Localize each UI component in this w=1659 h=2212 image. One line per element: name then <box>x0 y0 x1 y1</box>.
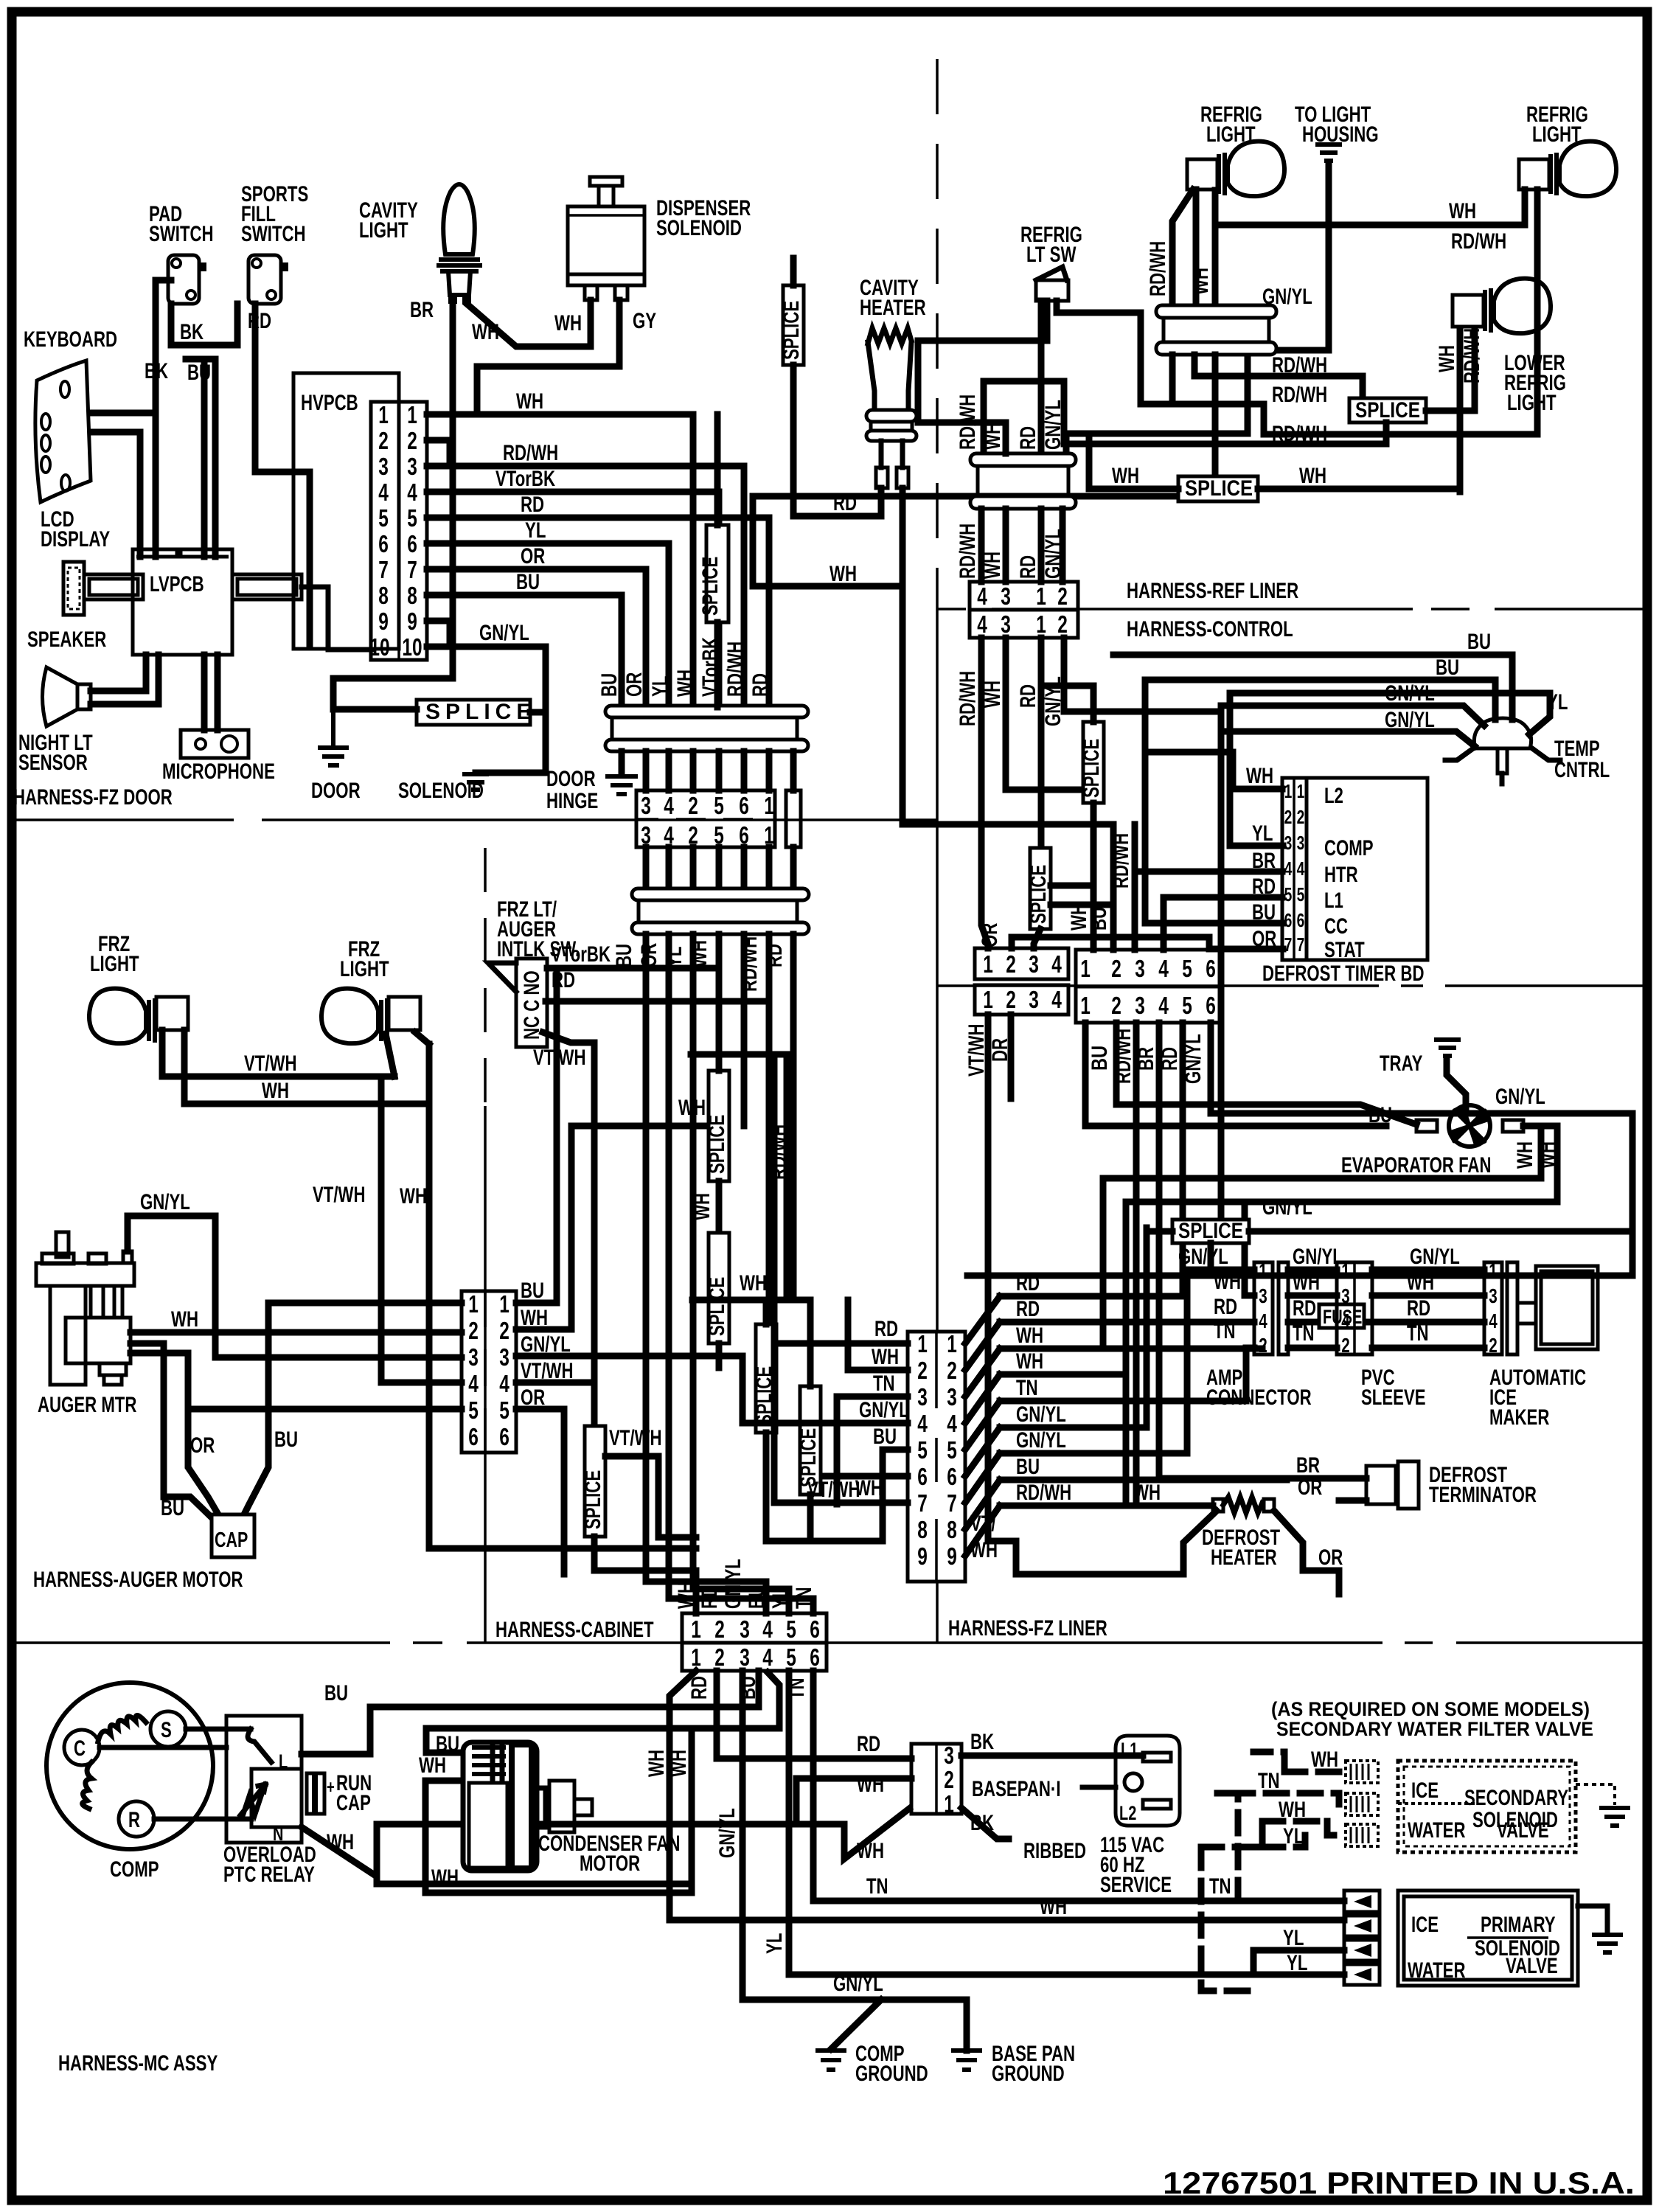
svg-text:5: 5 <box>468 1397 479 1424</box>
svg-text:BU: BU <box>324 1681 348 1705</box>
lcd display <box>63 562 84 615</box>
section divider H2 harness-ref-liner <box>937 608 1647 611</box>
wire splice10 right <box>1249 1228 1632 1235</box>
svg-text:WH: WH <box>521 1306 548 1330</box>
svg-text:GN/YL: GN/YL <box>1016 1402 1066 1427</box>
wire splice right GN/YL down <box>476 647 546 773</box>
dashed WH wire <box>1284 1769 1339 1775</box>
svg-text:6: 6 <box>1206 955 1216 982</box>
wire relay WH out <box>302 1809 909 1884</box>
svg-text:BU: BU <box>873 1425 897 1449</box>
svg-text:YL: YL <box>1252 821 1273 846</box>
svg-text:SWITCH: SWITCH <box>149 222 214 246</box>
wire splice WH top <box>714 414 721 525</box>
svg-text:C: C <box>74 1736 86 1761</box>
svg-text:3: 3 <box>1029 950 1039 978</box>
svg-text:2: 2 <box>378 427 389 454</box>
tray ground <box>1436 1040 1458 1056</box>
switch flag <box>488 963 516 992</box>
svg-text:BR: BR <box>410 298 434 322</box>
svg-text:1: 1 <box>378 401 389 428</box>
svg-text:4: 4 <box>917 1410 928 1437</box>
splice box S6 <box>1349 398 1426 422</box>
secondary valve dotted box <box>1398 1761 1576 1852</box>
wire sports switch to lvpcb <box>201 359 208 557</box>
dotted mid divider <box>1398 1802 1475 1805</box>
svg-text:GN/YL: GN/YL <box>715 1808 740 1858</box>
svg-text:1: 1 <box>1080 992 1091 1019</box>
wire lower refrig WH down <box>1457 330 1464 492</box>
svg-text:SPLICE: SPLICE <box>425 700 536 724</box>
wire RD/WH cn4312 pin4 down <box>981 638 988 948</box>
svg-text:WH: WH <box>1407 1270 1434 1295</box>
svg-text:TRAY: TRAY <box>1380 1051 1422 1076</box>
svg-text:L: L <box>279 1750 288 1773</box>
wire RD from switch <box>546 998 769 1005</box>
wire VT/WH into splice5 <box>516 1380 594 1386</box>
svg-text:WH: WH <box>981 422 1005 450</box>
svg-text:1: 1 <box>468 1290 479 1318</box>
splice3 WH box S7 <box>1178 476 1258 501</box>
svg-text:YL: YL <box>525 518 546 543</box>
svg-text:WH: WH <box>1016 1349 1043 1374</box>
wire splice S4b stubs <box>763 1300 770 1541</box>
svg-text:1: 1 <box>1036 611 1046 638</box>
svg-text:RD: RD <box>857 1732 880 1756</box>
svg-text:3: 3 <box>917 1383 928 1411</box>
wire TN pin6 down <box>813 1671 1344 1901</box>
svg-text:RD: RD <box>1016 684 1040 708</box>
svg-text:RD/WH: RD/WH <box>1460 328 1484 383</box>
svg-text:1: 1 <box>1080 955 1091 982</box>
wire pad switch left BK <box>156 280 171 557</box>
wire GN/YL pin3 down <box>742 1671 967 2051</box>
primary valve ground <box>1578 1906 1607 1932</box>
svg-text:SPLICE: SPLICE <box>705 1115 729 1174</box>
svg-text:2: 2 <box>1297 806 1305 828</box>
svg-text:+: + <box>327 1777 335 1798</box>
wire splice9 stubs <box>1051 886 1113 905</box>
svg-text:4: 4 <box>1158 955 1169 982</box>
svg-text:HARNESS-FZ DOOR: HARNESS-FZ DOOR <box>13 785 173 810</box>
door hinge grommet upper <box>605 706 808 717</box>
splice vertical S4c <box>800 1386 821 1495</box>
svg-text:5: 5 <box>1182 992 1192 1019</box>
wire WH vert to CN9 pin2 <box>848 1300 908 1370</box>
wire DR from CN4 pin2 <box>1008 1015 1015 1099</box>
svg-text:BU: BU <box>187 361 211 385</box>
svg-text:WH: WH <box>1535 1141 1559 1169</box>
frz light bulb B5 <box>89 989 188 1044</box>
svg-text:5: 5 <box>947 1436 957 1464</box>
svg-text:RD: RD <box>1016 1297 1040 1321</box>
svg-text:WATER: WATER <box>1408 1818 1466 1843</box>
svg-text:3: 3 <box>947 1383 957 1411</box>
wire R8 BU <box>1000 1477 1287 1484</box>
svg-text:WH: WH <box>1040 1895 1067 1919</box>
svg-text:BU: BU <box>516 570 540 594</box>
wire splice S4c stubs <box>807 1300 814 1541</box>
svg-text:RD/WH: RD/WH <box>767 1124 791 1180</box>
wire splice5 bottom <box>594 1537 696 1613</box>
svg-text:WH: WH <box>1311 1747 1338 1772</box>
svg-text:RD/WH: RD/WH <box>956 524 980 579</box>
svg-text:RD: RD <box>1407 1296 1430 1321</box>
wire BU long from auger bus <box>516 824 1113 1303</box>
wire C across <box>100 1745 226 1750</box>
svg-text:GN/YL: GN/YL <box>1041 400 1065 450</box>
svg-text:BK: BK <box>180 320 204 344</box>
hvpcb pin connector <box>371 402 427 660</box>
lvpcb box U1 <box>133 549 232 655</box>
svg-text:L1: L1 <box>1324 888 1343 913</box>
plug 115vac P1 <box>1116 1736 1180 1826</box>
wire GN/YL left pin4 <box>516 1356 908 1423</box>
svg-text:3: 3 <box>1001 611 1011 638</box>
hvpcb pin numbers <box>369 401 422 661</box>
svg-text:WH: WH <box>981 552 1005 579</box>
svg-text:SPLICE: SPLICE <box>1185 476 1253 501</box>
svg-text:1: 1 <box>407 401 417 428</box>
svg-text:CAP: CAP <box>336 1791 371 1815</box>
wire heater WH pin down <box>753 488 902 586</box>
secondary valve terminals dotted <box>1346 1761 1378 1846</box>
wire VT-WH col8 down <box>790 934 797 1300</box>
wire rd/wh line3 <box>1064 422 1386 444</box>
svg-text:TN: TN <box>1016 1376 1038 1400</box>
svg-text:SPLICE: SPLICE <box>1026 865 1051 924</box>
defrost timer bd box U3 <box>1282 778 1427 960</box>
svg-text:7: 7 <box>378 556 389 583</box>
svg-text:WH: WH <box>1435 345 1459 372</box>
wire splice RD top <box>790 258 797 516</box>
svg-text:6: 6 <box>917 1463 928 1490</box>
svg-text:4: 4 <box>1158 992 1169 1019</box>
svg-text:LIGHT: LIGHT <box>359 218 408 243</box>
temp cntrl BU wire 1 <box>1113 655 1512 720</box>
svg-text:S: S <box>161 1718 172 1742</box>
svg-text:3: 3 <box>641 792 651 819</box>
svg-text:7: 7 <box>917 1489 928 1517</box>
svg-text:WH: WH <box>171 1307 198 1332</box>
svg-text:PTC RELAY: PTC RELAY <box>223 1863 315 1887</box>
keyboard <box>35 361 91 502</box>
svg-text:WH: WH <box>1133 1481 1161 1505</box>
svg-text:SPLICE: SPLICE <box>581 1470 605 1529</box>
wire heater RD pin <box>793 488 881 516</box>
svg-text:4: 4 <box>378 479 389 506</box>
svg-text:3: 3 <box>1284 832 1293 854</box>
svg-text:GROUND: GROUND <box>992 2062 1065 2086</box>
splice GN/YL S10 <box>1172 1220 1249 1243</box>
door connector numbers row2 <box>641 821 774 849</box>
svg-text:GROUND: GROUND <box>855 2062 928 2086</box>
wire R7 GN/YL <box>1000 1270 1211 1453</box>
svg-text:OR: OR <box>622 672 647 697</box>
svg-text:3: 3 <box>1135 992 1145 1019</box>
CN9 right diagonals <box>965 1296 1000 1556</box>
connector CN6 <box>1076 950 1220 987</box>
svg-text:WH: WH <box>872 1345 899 1369</box>
svg-text:SWITCH: SWITCH <box>241 222 306 246</box>
svg-text:SENSOR: SENSOR <box>18 751 88 775</box>
wire keyboard to lvpcb bus <box>91 413 156 557</box>
wire RD pin2 down <box>717 1671 911 1759</box>
svg-text:3: 3 <box>740 1644 750 1671</box>
splice vertical S5 left <box>585 1426 605 1537</box>
svg-text:DOOR: DOOR <box>546 767 596 791</box>
comp ground diag <box>831 2000 881 2049</box>
svg-text:BU: BU <box>1467 630 1491 654</box>
lvpcb left connector <box>84 574 143 599</box>
section divider vertical V2 <box>484 848 487 1106</box>
relay resistor arrow <box>240 1784 265 1815</box>
svg-text:BR: BR <box>1296 1453 1320 1478</box>
svg-text:HEATER: HEATER <box>1211 1545 1277 1570</box>
svg-text:CAP: CAP <box>215 1528 248 1552</box>
svg-text:OR: OR <box>521 544 546 568</box>
wire hvpcb pin5 RD <box>427 518 769 707</box>
svg-text:SPLICE: SPLICE <box>779 301 804 360</box>
svg-text:1: 1 <box>1489 1259 1498 1282</box>
timer pin5 RD wire <box>1164 897 1282 950</box>
door connector numbers row1 <box>641 792 774 819</box>
svg-text:4: 4 <box>1341 1310 1350 1332</box>
svg-text:1: 1 <box>947 1330 957 1357</box>
svg-text:1: 1 <box>764 792 774 819</box>
svg-text:6: 6 <box>499 1423 509 1450</box>
wire VT/WH from CN4 pin1 to heater <box>988 1015 1217 1574</box>
wire lt sw right pin zig <box>1057 301 1141 404</box>
svg-text:5: 5 <box>407 504 417 532</box>
svg-text:VT/WH: VT/WH <box>521 1359 574 1383</box>
svg-text:CNTRL: CNTRL <box>1554 758 1610 782</box>
svg-text:RIBBED: RIBBED <box>1023 1839 1086 1863</box>
svg-text:OR: OR <box>1318 1545 1343 1570</box>
wire WH top of splice3 <box>691 1054 787 1300</box>
svg-text:LIGHT: LIGHT <box>1507 391 1557 415</box>
bus rotated labels above door hinge grommet <box>597 637 773 697</box>
svg-text:YL: YL <box>1287 1951 1307 1975</box>
wire splice left to door ground <box>333 706 417 713</box>
comp ground symbol <box>818 2051 844 2070</box>
comp coil CS <box>98 1715 146 1742</box>
wire bulb1 mid pin <box>1193 189 1200 307</box>
svg-text:RD: RD <box>521 493 544 517</box>
svg-text:WH: WH <box>1189 268 1213 295</box>
svg-text:6: 6 <box>810 1615 820 1643</box>
svg-text:GN/YL: GN/YL <box>140 1190 190 1214</box>
svg-text:TN: TN <box>1214 1319 1236 1343</box>
wires below grommet A <box>1172 355 1363 476</box>
NC C NO switch <box>516 959 547 1047</box>
svg-text:HEATER: HEATER <box>860 296 926 320</box>
svg-text:SOLENOID: SOLENOID <box>656 216 742 240</box>
svg-text:WH: WH <box>829 562 857 586</box>
wire sports switch right RD down <box>255 304 310 645</box>
svg-text:1: 1 <box>1036 582 1046 610</box>
wire RD cn4312 pin1 down <box>1038 638 1045 848</box>
pvc connector CN-A2 <box>1337 1262 1372 1354</box>
svg-text:GN/YL: GN/YL <box>479 621 529 645</box>
wire WH from auger rows to splice1 <box>516 1126 709 1329</box>
primary valve box <box>1398 1891 1578 1986</box>
svg-text:1: 1 <box>499 1290 509 1318</box>
wire BU auger to cap <box>131 1343 215 1520</box>
svg-text:YL: YL <box>768 1588 793 1609</box>
svg-text:GN/YL: GN/YL <box>859 1398 909 1422</box>
svg-text:TN: TN <box>1258 1769 1280 1793</box>
svg-text:WH: WH <box>419 1753 446 1778</box>
wire hvpcb pin6 YL <box>427 543 669 707</box>
wire heater right OR <box>1274 1511 1339 1594</box>
svg-text:9: 9 <box>378 608 389 635</box>
svg-text:RD: RD <box>874 1317 898 1341</box>
svg-text:BU: BU <box>274 1427 298 1452</box>
svg-text:MICROPHONE: MICROPHONE <box>162 759 275 784</box>
svg-text:3: 3 <box>499 1343 509 1371</box>
svg-text:VALVE: VALVE <box>1506 1954 1558 1978</box>
svg-text:GN/YL: GN/YL <box>521 1332 571 1357</box>
wire RD/WH zig to bulb2 <box>1141 189 1537 434</box>
dashed loop <box>1201 1752 1284 1991</box>
svg-text:2: 2 <box>1259 1334 1267 1357</box>
hvpcb box U2 <box>293 373 399 649</box>
svg-text:RD/WH: RD/WH <box>723 641 748 697</box>
svg-text:WH: WH <box>1293 1270 1320 1295</box>
wire cavity light BR <box>333 304 453 709</box>
wire splice8 top <box>1041 686 1093 722</box>
svg-text:LIGHT: LIGHT <box>90 952 139 976</box>
wire BU right to cap <box>243 1303 462 1516</box>
svg-text:WH: WH <box>262 1079 289 1103</box>
wire splice9 bottom to CN4 pin3 <box>1034 929 1040 948</box>
svg-text:7: 7 <box>407 556 417 583</box>
svg-text:STAT: STAT <box>1324 938 1365 962</box>
svg-text:1: 1 <box>1259 1259 1267 1282</box>
svg-text:9: 9 <box>407 608 417 635</box>
wire OR auger to cap <box>131 1353 218 1514</box>
dashed WH wire2 <box>1262 1821 1339 1835</box>
svg-text:AUGER MTR: AUGER MTR <box>38 1393 137 1417</box>
wire YL from temp <box>1230 693 1550 846</box>
connector CN9 <box>908 1332 965 1582</box>
svg-text:6: 6 <box>1284 909 1293 931</box>
svg-text:4: 4 <box>977 611 987 638</box>
svg-text:HARNESS-CABINET: HARNESS-CABINET <box>495 1618 654 1642</box>
wire below switch <box>543 1032 594 1426</box>
wire hvpcb pin8 BU <box>427 595 622 707</box>
base pan ground symbol <box>953 2051 980 2070</box>
svg-text:HARNESS-AUGER MOTOR: HARNESS-AUGER MOTOR <box>33 1568 243 1592</box>
primary valve terminals <box>1344 1891 1380 1985</box>
svg-text:6: 6 <box>378 530 389 557</box>
comp R terminal <box>119 1801 154 1837</box>
wires connector to lower grommet <box>646 847 793 890</box>
svg-text:RD/WH: RD/WH <box>1272 353 1327 378</box>
svg-text:BR: BR <box>1252 849 1276 873</box>
svg-text:10: 10 <box>369 633 389 661</box>
splice vertical WH S2 <box>706 525 728 622</box>
svg-text:3: 3 <box>1489 1284 1498 1307</box>
wires speaker to lvpcb <box>91 655 159 704</box>
svg-text:2: 2 <box>1284 806 1293 828</box>
wire evap WH right 2 <box>1085 1023 1557 1506</box>
speaker / night light sensor cone <box>43 667 78 726</box>
svg-text:N: N <box>273 1823 283 1845</box>
svg-text:4: 4 <box>1051 986 1062 1013</box>
svg-text:4: 4 <box>499 1370 509 1397</box>
svg-text:MOTOR: MOTOR <box>580 1851 640 1876</box>
svg-text:L2: L2 <box>1324 784 1343 808</box>
svg-text:GN/YL: GN/YL <box>1041 529 1065 579</box>
svg-text:2: 2 <box>1489 1334 1498 1357</box>
svg-text:3: 3 <box>1341 1284 1350 1307</box>
refrig light bulb B2 <box>1187 142 1284 197</box>
svg-text:WH: WH <box>673 669 698 697</box>
svg-text:VT/WH: VT/WH <box>609 1426 662 1450</box>
cavity heater HR1 <box>866 328 917 488</box>
svg-text:RD: RD <box>1016 426 1040 450</box>
svg-text:HARNESS-CONTROL: HARNESS-CONTROL <box>1127 617 1293 641</box>
wire WH cn4312 pin3 down to splice <box>1006 638 1083 790</box>
svg-text:4: 4 <box>762 1615 773 1643</box>
svg-text:BU: BU <box>1252 900 1276 925</box>
svg-text:6: 6 <box>739 792 749 819</box>
svg-text:GN/YL: GN/YL <box>1410 1245 1460 1269</box>
refrig lt sw SW3 <box>1036 267 1068 301</box>
connector CN4 <box>975 948 1068 979</box>
defrost heater HR2 <box>1213 1497 1274 1513</box>
wire VT/WH bulbs <box>162 1030 394 1382</box>
grommet B refrig liner <box>970 453 1076 466</box>
svg-text:SECONDARY WATER FILTER VALVE: SECONDARY WATER FILTER VALVE <box>1276 1718 1593 1740</box>
svg-text:RD: RD <box>748 673 773 697</box>
svg-text:7: 7 <box>1297 933 1305 956</box>
wire R5 TN <box>1000 1348 1254 1401</box>
connector 321 CN-B <box>911 1744 961 1814</box>
wire evap WH right 1 <box>1103 1126 1541 1349</box>
wire VT/WH to connector <box>381 1380 462 1386</box>
refrig grommet A <box>1156 305 1276 318</box>
wire WH left pin6 <box>826 1473 908 1480</box>
amp connector CN-A1 <box>1254 1262 1273 1354</box>
wire OR col down <box>669 934 813 1613</box>
svg-text:LVPCB: LVPCB <box>150 572 204 597</box>
svg-text:4: 4 <box>1259 1310 1267 1332</box>
svg-text:4: 4 <box>1297 858 1305 880</box>
svg-text:3: 3 <box>1297 832 1305 854</box>
wire OR to connector <box>188 1406 462 1413</box>
svg-text:WH: WH <box>327 1830 354 1854</box>
wires pvc segment <box>1288 1270 1380 1348</box>
svg-text:5: 5 <box>499 1397 509 1424</box>
wire lt sw left pin down to grommet RD <box>1038 301 1045 455</box>
svg-text:BU: BU <box>1016 1455 1040 1479</box>
svg-text:3: 3 <box>378 453 389 480</box>
svg-text:WH: WH <box>644 1750 669 1777</box>
svg-text:2: 2 <box>947 1357 957 1384</box>
svg-text:VT/: VT/ <box>970 1512 996 1536</box>
svg-text:2: 2 <box>1057 611 1068 638</box>
svg-text:4: 4 <box>407 479 417 506</box>
cabinet connector CN-CAB <box>682 1613 827 1643</box>
svg-text:4: 4 <box>468 1370 479 1397</box>
svg-text:COMP: COMP <box>110 1857 159 1882</box>
svg-text:1: 1 <box>983 986 993 1013</box>
wire BU col down to cabinet <box>646 934 766 1613</box>
svg-text:GN/YL: GN/YL <box>1016 1428 1066 1453</box>
